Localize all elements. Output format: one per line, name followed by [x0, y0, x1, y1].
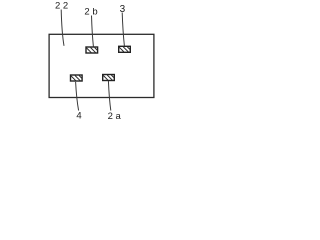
wire: leader line for label 3 [122, 13, 124, 47]
node 3: hatched element upper-right [119, 46, 131, 52]
wire: leader line for label 2 a [108, 81, 110, 111]
svg-text:2 2: 2 2 [55, 1, 68, 12]
svg-text:3: 3 [120, 4, 126, 15]
wire: leader line for label 4 [76, 82, 79, 111]
node 2b: hatched element upper-left [86, 47, 98, 53]
node 4: hatched element lower-left [71, 75, 83, 81]
svg-text:2 b: 2 b [84, 7, 97, 18]
svg-text:4: 4 [76, 111, 81, 120]
wire: outer enclosure rectangle (component body 2) [49, 34, 154, 97]
node 2a: hatched element lower-right [103, 75, 115, 81]
wire: leader line for label 2 2 [61, 10, 64, 46]
wire: leader line for label 2 b [92, 16, 94, 47]
svg-text:2 a: 2 a [108, 111, 122, 120]
